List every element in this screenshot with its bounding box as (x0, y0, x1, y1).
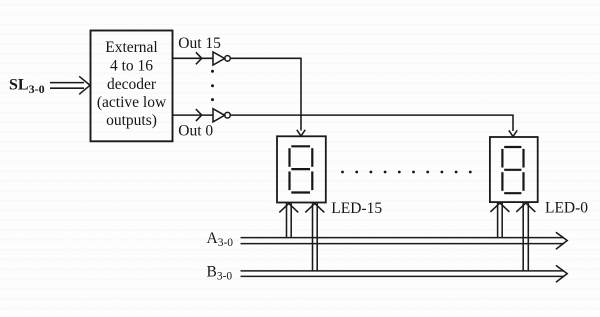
svg-text:decoder: decoder (107, 76, 157, 93)
svg-text:External: External (105, 39, 158, 56)
svg-text:(active low: (active low (97, 94, 167, 111)
svg-text:4 to 16: 4 to 16 (110, 57, 153, 74)
svg-text:outputs): outputs) (106, 112, 157, 129)
svg-text:Out 0: Out 0 (178, 122, 213, 139)
svg-text:LED-0: LED-0 (545, 200, 588, 217)
svg-text:Out 15: Out 15 (178, 35, 221, 52)
svg-text:LED-15: LED-15 (331, 200, 382, 217)
